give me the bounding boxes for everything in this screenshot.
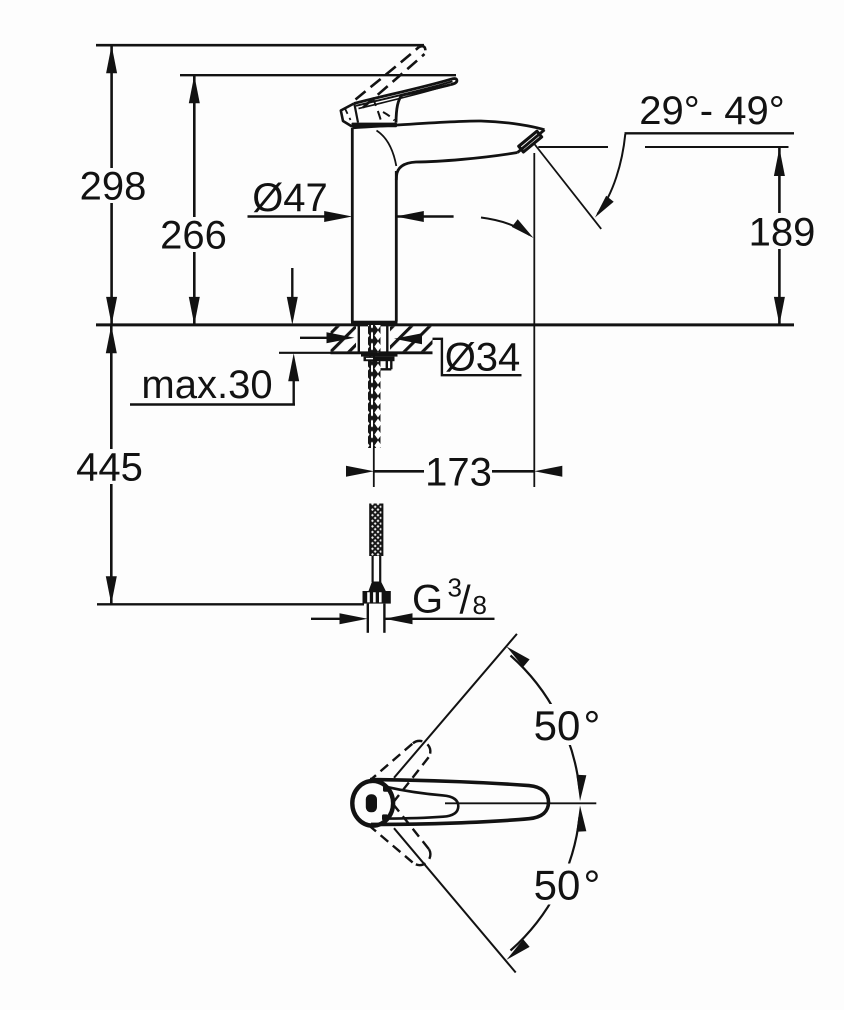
label 50 upper bbox=[531, 704, 601, 745]
svg-text:298: 298 bbox=[80, 165, 147, 209]
deck bottom edge bbox=[331, 351, 433, 354]
svg-text:G: G bbox=[412, 578, 443, 622]
dia47 right shaft bbox=[396, 215, 454, 217]
label 266 bbox=[162, 217, 225, 252]
ray -50deg bbox=[394, 828, 516, 972]
lever raised dashed top edge bbox=[356, 47, 420, 100]
head cap dark slot bbox=[366, 794, 377, 812]
lever raised dashed tip cap bbox=[419, 46, 425, 54]
dimension 445 line bbox=[110, 325, 113, 604]
arrow dia34 right bbox=[394, 333, 422, 344]
hidden dashed curve in base bbox=[383, 112, 395, 121]
lever top edge bbox=[354, 79, 457, 104]
svg-text:°: ° bbox=[584, 862, 601, 909]
arrow 298 bottom bbox=[106, 297, 117, 325]
arrow G38 left bbox=[340, 613, 368, 624]
label 189 bbox=[749, 213, 815, 249]
svg-text:Ø47: Ø47 bbox=[252, 176, 328, 220]
extension line solid-lever tip level (y=75) bbox=[180, 74, 456, 76]
arrow lower arc to ray bbox=[503, 939, 529, 963]
deck bottom extension line bbox=[279, 352, 331, 354]
dashed lever rotated up bbox=[368, 741, 430, 803]
hose smooth tube bbox=[372, 556, 374, 582]
arrow angle arc end bbox=[591, 196, 613, 221]
washer below deck bbox=[361, 353, 398, 357]
arrow 266 bottom bbox=[189, 297, 200, 325]
dia47 left leader bbox=[248, 215, 326, 217]
swing arc lower bbox=[511, 817, 580, 951]
arrow upper arc to centre line bbox=[575, 775, 586, 801]
dimension 298 line bbox=[110, 45, 113, 325]
aerator level reference line left part bbox=[538, 146, 608, 148]
handle base dark joint band bbox=[351, 321, 398, 326]
extension line top (dashed-lever tip level, y=45) bbox=[96, 44, 424, 47]
lever grip outer outline bbox=[370, 780, 549, 825]
svg-text:266: 266 bbox=[160, 214, 227, 258]
svg-text:8: 8 bbox=[473, 590, 487, 620]
svg-text:50: 50 bbox=[534, 862, 581, 909]
head screw dot lower bbox=[382, 814, 388, 820]
head screw dot upper bbox=[383, 786, 389, 792]
svg-text:°: ° bbox=[584, 702, 601, 749]
flexible hose braided section bbox=[370, 504, 383, 557]
ray +50deg bbox=[394, 634, 517, 778]
handle centre line bbox=[445, 802, 596, 804]
label 298 bbox=[82, 168, 144, 203]
svg-text:50: 50 bbox=[534, 702, 581, 749]
svg-text:445: 445 bbox=[76, 446, 143, 490]
arrow 189 top bbox=[774, 148, 785, 176]
handle base front line bbox=[355, 105, 359, 123]
arrow upper arc to ray bbox=[503, 643, 529, 667]
swing arc upper bbox=[511, 656, 580, 790]
label 173 bbox=[424, 455, 492, 488]
hidden cartridge dashed line bbox=[373, 98, 382, 123]
deck hatched left block bbox=[331, 326, 357, 351]
deck hatched right block bbox=[390, 326, 433, 351]
faucet body left edge bbox=[351, 128, 354, 322]
arrow dia47 right bbox=[396, 211, 424, 222]
arrow 445 bottom bbox=[106, 576, 117, 604]
shank tube left wall bbox=[358, 325, 360, 353]
swivel arc arrow bbox=[481, 218, 530, 236]
dimension 266 line bbox=[193, 75, 196, 325]
shank tube right wall bbox=[386, 325, 388, 353]
spout underside bbox=[396, 153, 517, 181]
arrow lower arc to centre line bbox=[575, 805, 586, 831]
arrow dia47 left bbox=[324, 211, 352, 222]
threaded rod through deck down to hose break bbox=[368, 325, 381, 448]
bottom connector reference line bbox=[97, 603, 364, 605]
arrow 173 right bbox=[534, 466, 562, 477]
lever raised dashed bottom edge bbox=[363, 54, 425, 108]
lever underside bbox=[396, 85, 451, 123]
connector tube G3/8 bbox=[367, 604, 369, 633]
dashed lever rotated down bbox=[368, 804, 430, 865]
max.30 lower arrow shaft bbox=[293, 381, 295, 405]
water stream direction line bbox=[534, 144, 601, 229]
max.30 underline bbox=[130, 403, 295, 405]
spout top edge bbox=[352, 121, 544, 130]
angle arc 29-49 bbox=[598, 134, 626, 214]
mounting nut bbox=[364, 357, 395, 362]
label 445 bbox=[78, 449, 142, 484]
arrow 173 left bbox=[346, 466, 374, 477]
arrowheads group bbox=[106, 45, 785, 624]
svg-text:/: / bbox=[460, 579, 472, 623]
max.30 upper arrow shaft bbox=[291, 268, 293, 297]
arrow swivel end bbox=[512, 219, 537, 241]
arrow 189 bottom bbox=[774, 297, 785, 325]
dia34 leader bbox=[394, 339, 522, 375]
arrow max30 down to deck top bbox=[287, 297, 298, 325]
G3/8 left arrow shaft bbox=[311, 618, 341, 620]
handle base left flap bbox=[341, 104, 354, 127]
extension line spout tip to 173 bbox=[533, 153, 535, 487]
label 50 lower bbox=[531, 864, 601, 905]
spout end face bbox=[518, 130, 545, 153]
svg-text:173: 173 bbox=[425, 451, 492, 495]
svg-text:189: 189 bbox=[749, 211, 816, 255]
angle reference line upper bbox=[625, 132, 795, 134]
lever head (top view) bbox=[352, 781, 393, 826]
hose crimp cone bbox=[369, 582, 386, 592]
arrow 298 top bbox=[106, 45, 117, 73]
arrowheads for swing arcs bbox=[503, 643, 586, 964]
dia34 left shaft bbox=[300, 337, 327, 339]
aerator level reference line right part bbox=[645, 146, 789, 148]
arrow max30 up to deck bottom bbox=[288, 353, 299, 381]
svg-text:Ø34: Ø34 bbox=[445, 336, 521, 380]
lever top ridge inner line bbox=[356, 81, 453, 106]
arrow dia34 left bbox=[327, 332, 355, 343]
hose nipple bracket bbox=[381, 361, 392, 370]
svg-text:max.30: max.30 bbox=[141, 363, 272, 407]
counter top baseline bbox=[96, 323, 794, 326]
faucet body right edge bbox=[395, 171, 398, 322]
hose connector nut bbox=[363, 591, 391, 604]
lever neck inner contour bbox=[386, 787, 459, 819]
extension line rod centre to 173 bbox=[373, 446, 375, 487]
dashed tick on left flap bbox=[345, 108, 351, 121]
arrow G38 right bbox=[385, 613, 413, 624]
arrow 266 top bbox=[189, 75, 200, 103]
aerator bbox=[519, 131, 542, 152]
G3/8 right arrow shaft bbox=[385, 618, 495, 620]
arrow 445 top bbox=[106, 325, 117, 353]
dimension 189 line bbox=[778, 148, 781, 325]
spout root fillet curve bbox=[377, 131, 397, 167]
svg-text:29°- 49°: 29°- 49° bbox=[639, 89, 784, 133]
dimension 173 line bbox=[374, 470, 534, 473]
